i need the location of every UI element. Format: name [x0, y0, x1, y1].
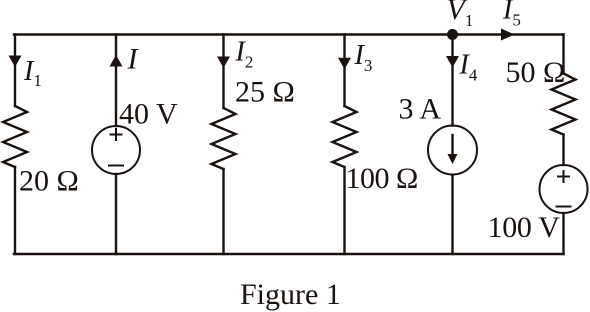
svg-text:I2: I2: [235, 37, 254, 72]
svg-text:Figure 1: Figure 1: [240, 278, 341, 311]
wire bottom horizontal: [14, 253, 564, 256]
node V1 dot: [447, 29, 458, 40]
current arrow I3: [338, 58, 351, 70]
svg-text:I4: I4: [459, 50, 478, 85]
wire branch6 middle: [562, 135, 564, 166]
resistor R 100ohm: [333, 106, 357, 167]
wire branch1 vertical: [14, 35, 16, 107]
wire branch6 vertical top: [562, 35, 564, 74]
svg-text:25 Ω: 25 Ω: [235, 76, 295, 109]
current arrow I1: [9, 56, 22, 68]
svg-text:I3: I3: [354, 40, 373, 75]
svg-text:40 V: 40 V: [119, 98, 178, 131]
current source arrow: [451, 135, 453, 156]
wire branch5 vertical: [451, 35, 453, 126]
svg-text:I: I: [127, 43, 140, 76]
plus sign: [558, 171, 569, 182]
wire top horizontal: [14, 33, 564, 36]
voltage source 40V: [92, 126, 140, 174]
minus sign: [557, 206, 571, 208]
svg-text:100 V: 100 V: [488, 211, 561, 244]
wire branch3 vertical: [222, 35, 224, 109]
current arrow I2: [217, 57, 230, 69]
svg-text:3 A: 3 A: [399, 93, 442, 126]
current arrow I up: [110, 55, 123, 67]
plus sign: [111, 129, 122, 140]
resistor R 50ohm: [552, 74, 576, 135]
wire branch6 bottom: [562, 213, 564, 254]
current arrow I4: [446, 56, 459, 68]
voltage source 100V: [540, 165, 588, 213]
svg-text:20 Ω: 20 Ω: [19, 165, 79, 198]
svg-text:50 Ω: 50 Ω: [506, 56, 566, 89]
resistor R 20ohm: [3, 106, 27, 167]
svg-text:I1: I1: [23, 56, 42, 90]
current source 3A: [428, 126, 477, 175]
current arrow I5 on top wire: [501, 29, 515, 41]
svg-text:V1: V1: [447, 0, 474, 30]
wire branch4 vertical: [343, 35, 345, 107]
svg-text:100 Ω: 100 Ω: [346, 162, 418, 195]
svg-text:I5: I5: [502, 0, 521, 30]
wire branch2 vertical: [115, 35, 117, 127]
resistor R 25ohm: [212, 108, 236, 169]
minus sign: [109, 165, 123, 167]
